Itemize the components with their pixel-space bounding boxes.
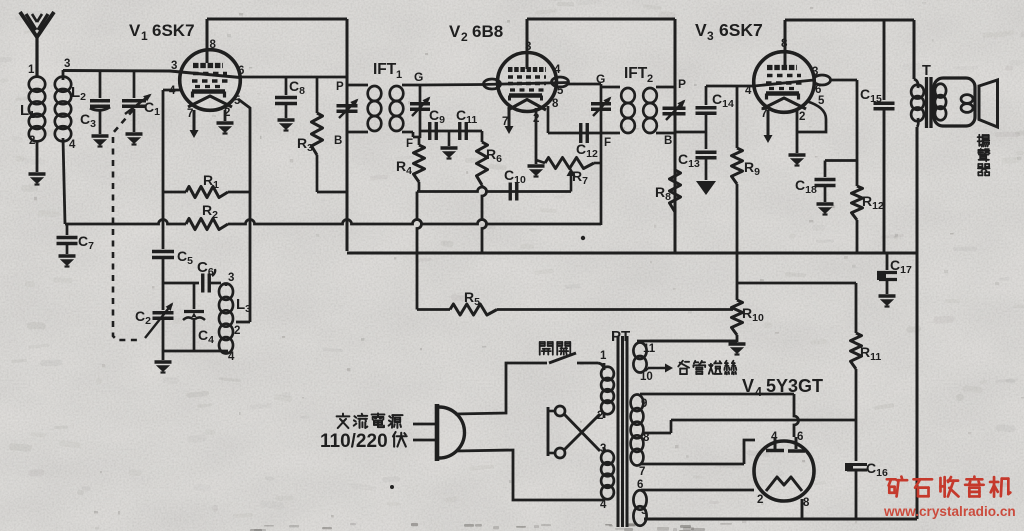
svg-text:4: 4 (228, 351, 235, 363)
svg-text:8: 8 (781, 38, 788, 50)
svg-text:6: 6 (797, 431, 803, 443)
svg-text:8: 8 (210, 39, 217, 51)
svg-text:G: G (596, 72, 605, 86)
svg-text:7: 7 (502, 116, 508, 128)
svg-text:5Y3GT: 5Y3GT (766, 376, 823, 396)
svg-text:V: V (449, 22, 461, 41)
svg-text:5: 5 (557, 85, 564, 97)
svg-text:8: 8 (803, 497, 810, 509)
svg-text:3: 3 (171, 60, 177, 72)
svg-text:2: 2 (799, 111, 805, 123)
svg-text:6: 6 (637, 479, 643, 491)
svg-text:3: 3 (812, 66, 818, 78)
svg-text:6B8: 6B8 (472, 22, 503, 41)
svg-text:1: 1 (600, 350, 607, 362)
svg-text:G: G (414, 70, 423, 84)
svg-text:7: 7 (761, 108, 767, 120)
svg-text:4: 4 (169, 85, 176, 97)
svg-text:11: 11 (643, 343, 656, 355)
svg-text:6SK7: 6SK7 (152, 21, 195, 40)
svg-text:10: 10 (640, 371, 653, 383)
svg-text:4: 4 (771, 431, 778, 443)
svg-text:4: 4 (554, 64, 561, 76)
svg-text:6SK7: 6SK7 (719, 20, 763, 40)
svg-text:2: 2 (29, 135, 35, 147)
svg-text:1: 1 (28, 64, 35, 76)
svg-text:2: 2 (224, 107, 230, 119)
svg-text:8: 8 (552, 98, 559, 110)
svg-text:2: 2 (533, 113, 539, 125)
svg-text:3: 3 (64, 58, 70, 70)
svg-text:IFT: IFT (373, 61, 397, 78)
svg-text:1: 1 (141, 29, 148, 43)
svg-text:2: 2 (597, 410, 603, 422)
svg-text:P: P (678, 77, 686, 91)
svg-text:V: V (742, 376, 754, 396)
svg-text:7: 7 (187, 108, 193, 120)
svg-text:4: 4 (600, 499, 607, 511)
svg-text:B: B (334, 135, 342, 147)
svg-text:8: 8 (643, 432, 650, 444)
svg-text:2: 2 (461, 30, 468, 44)
svg-text:B: B (664, 135, 672, 147)
svg-text:6: 6 (238, 65, 244, 77)
svg-text:IFT: IFT (624, 65, 648, 82)
svg-text:PT: PT (611, 328, 630, 345)
svg-text:2: 2 (234, 325, 240, 337)
svg-text:V: V (695, 20, 707, 40)
svg-text:V: V (129, 21, 141, 40)
svg-text:110/220: 110/220 (320, 431, 388, 452)
svg-text:F: F (604, 137, 611, 149)
svg-text:2: 2 (647, 73, 653, 85)
svg-text:5: 5 (641, 505, 648, 517)
svg-text:7: 7 (639, 466, 645, 478)
svg-text:2: 2 (757, 494, 763, 506)
svg-text:3: 3 (228, 272, 234, 284)
svg-text:5: 5 (234, 95, 241, 107)
svg-text:4: 4 (755, 385, 762, 399)
svg-text:3: 3 (707, 29, 714, 43)
svg-text:4: 4 (745, 85, 752, 97)
svg-text:F: F (406, 138, 413, 150)
svg-text:4: 4 (69, 139, 76, 151)
svg-text:5: 5 (818, 95, 825, 107)
svg-text:1: 1 (396, 69, 402, 81)
svg-text:T: T (922, 63, 931, 79)
svg-text:www.crystalradio.cn: www.crystalradio.cn (883, 504, 1016, 519)
svg-text:P: P (336, 81, 344, 93)
svg-text:3: 3 (525, 41, 531, 53)
svg-text:3: 3 (600, 443, 606, 455)
svg-text:9: 9 (641, 398, 647, 410)
